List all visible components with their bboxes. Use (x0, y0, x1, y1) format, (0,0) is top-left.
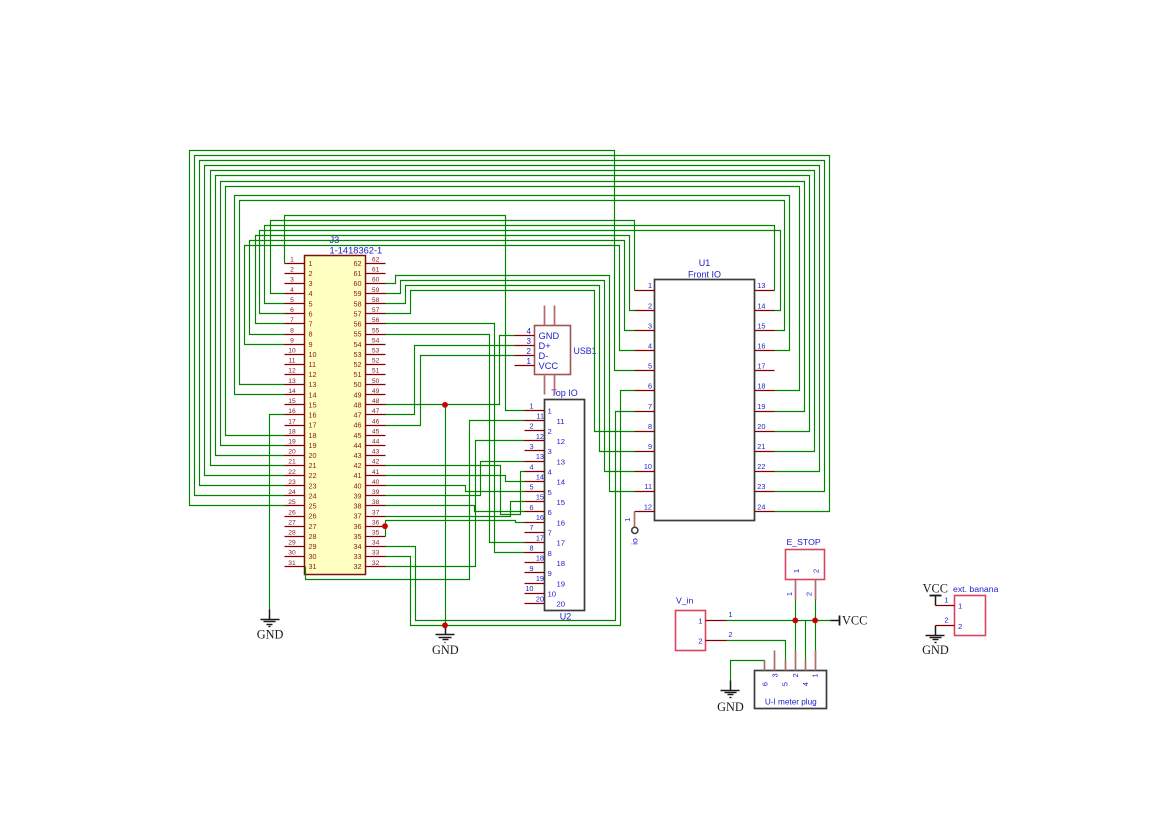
svg-text:12: 12 (557, 437, 566, 446)
svg-text:59: 59 (353, 289, 361, 298)
svg-text:42: 42 (353, 461, 361, 470)
svg-text:19: 19 (557, 579, 566, 588)
svg-text:18: 18 (557, 559, 566, 568)
svg-text:17: 17 (757, 362, 765, 371)
svg-text:5: 5 (648, 362, 652, 371)
connector U-I meter plug (755, 651, 827, 709)
svg-text:13: 13 (309, 380, 317, 389)
svg-text:2: 2 (944, 615, 948, 624)
svg-text:44: 44 (353, 441, 361, 450)
wire J3 pin6 to U1 pin14 (260, 231, 781, 314)
junction GND net bottom (442, 622, 448, 628)
IC U1 Front IO (635, 258, 775, 521)
svg-text:46: 46 (372, 418, 380, 425)
svg-text:11: 11 (644, 482, 652, 491)
svg-text:37: 37 (372, 509, 380, 516)
svg-text:53: 53 (372, 347, 380, 354)
svg-text:8: 8 (290, 327, 294, 334)
svg-text:16: 16 (557, 518, 566, 527)
wire E_STOP pin1 to plug pin2 (795, 600, 797, 651)
svg-text:14: 14 (557, 478, 566, 487)
svg-text:2: 2 (648, 301, 652, 310)
svg-text:41: 41 (353, 471, 361, 480)
svg-text:1: 1 (309, 259, 313, 268)
svg-text:1: 1 (648, 281, 652, 290)
svg-text:58: 58 (372, 297, 380, 304)
svg-text:35: 35 (372, 529, 380, 536)
svg-text:1: 1 (529, 401, 533, 410)
svg-text:7: 7 (290, 317, 294, 324)
svg-text:1: 1 (944, 595, 948, 604)
svg-text:27: 27 (309, 522, 317, 531)
svg-text:1: 1 (728, 610, 732, 619)
svg-text:11: 11 (309, 360, 317, 369)
svg-text:26: 26 (309, 512, 317, 521)
svg-text:16: 16 (288, 408, 296, 415)
IC U2 Top IO (525, 388, 585, 622)
svg-text:30: 30 (288, 550, 296, 557)
wire J3 pin41 to U2 pin14 (386, 476, 525, 482)
svg-text:39: 39 (353, 491, 361, 500)
svg-text:26: 26 (288, 509, 296, 516)
svg-text:61: 61 (353, 269, 361, 278)
junction J3 pin48 net / GND (442, 402, 448, 408)
svg-text:32: 32 (372, 560, 380, 567)
svg-text:15: 15 (536, 493, 544, 502)
svg-text:19: 19 (757, 402, 765, 411)
svg-text:1: 1 (698, 617, 702, 626)
svg-text:2: 2 (548, 427, 552, 436)
svg-text:5: 5 (309, 299, 313, 308)
svg-text:10: 10 (288, 347, 296, 354)
svg-text:29: 29 (288, 540, 296, 547)
svg-text:GND: GND (717, 700, 744, 714)
wire J3 pin57 to U1 pin8 (386, 291, 635, 432)
wire J3 pin31 to U2 pin11 (306, 421, 525, 580)
svg-text:11: 11 (289, 358, 296, 365)
svg-text:50: 50 (353, 380, 361, 389)
svg-text:17: 17 (288, 418, 296, 425)
svg-text:4: 4 (548, 468, 553, 477)
svg-text:15: 15 (309, 400, 317, 409)
wire J3 pin23 to U1 pin23 (200, 161, 825, 492)
svg-text:52: 52 (353, 360, 361, 369)
svg-text:6: 6 (309, 309, 313, 318)
svg-text:11: 11 (557, 417, 565, 426)
svg-text:4: 4 (648, 342, 652, 351)
svg-text:4: 4 (801, 682, 810, 686)
svg-text:4: 4 (290, 287, 294, 294)
svg-text:8: 8 (648, 422, 652, 431)
svg-text:VCC: VCC (539, 361, 559, 371)
wire J3 pin21 to U1 pin21 (211, 171, 815, 466)
svg-text:31: 31 (309, 562, 317, 571)
wire J3 pin13 to U1 pin15 (240, 201, 785, 385)
svg-text:VCC: VCC (923, 582, 948, 596)
svg-text:14: 14 (757, 301, 765, 310)
svg-text:38: 38 (353, 502, 361, 511)
svg-text:38: 38 (372, 499, 380, 506)
wire J3 pin14 to U1 pin16 (235, 196, 790, 395)
svg-text:D-: D- (539, 351, 549, 361)
svg-text:48: 48 (372, 398, 380, 405)
wire J3 pin42 to U2 pin4 (386, 466, 525, 515)
svg-text:16: 16 (309, 411, 317, 420)
svg-text:43: 43 (372, 449, 380, 456)
svg-text:4: 4 (529, 462, 533, 471)
junction VCC / E_STOP pin2 (812, 618, 818, 624)
connector ext. banana (936, 584, 999, 636)
svg-text:15: 15 (557, 498, 566, 507)
svg-text:15: 15 (757, 321, 765, 330)
connector io (pin 1 on U1 pin 12) (623, 512, 640, 545)
svg-text:54: 54 (372, 337, 380, 344)
wire J3 pin33 to U1 pin6 (GND net) (386, 391, 635, 626)
svg-text:34: 34 (353, 542, 361, 551)
svg-text:3: 3 (529, 442, 533, 451)
svg-text:12: 12 (536, 432, 544, 441)
svg-text:40: 40 (372, 479, 380, 486)
svg-text:58: 58 (353, 299, 361, 308)
svg-text:33: 33 (353, 552, 361, 561)
wire J3 pin35-36 to U2 pin16 (386, 521, 525, 537)
svg-text:23: 23 (288, 479, 296, 486)
svg-text:20: 20 (757, 422, 765, 431)
svg-text:8: 8 (529, 544, 533, 553)
svg-text:24: 24 (757, 502, 765, 511)
svg-text:15: 15 (288, 398, 296, 405)
svg-text:2: 2 (805, 592, 814, 596)
wire J3 pin48 to USB1 GND (386, 336, 515, 405)
svg-text:17: 17 (309, 421, 317, 430)
svg-text:9: 9 (648, 442, 652, 451)
svg-text:32: 32 (353, 562, 361, 571)
svg-text:2: 2 (309, 269, 313, 278)
svg-text:12: 12 (288, 368, 296, 375)
svg-text:52: 52 (372, 358, 380, 365)
wire V_in pin1 to VCC (727, 620, 831, 622)
svg-text:28: 28 (288, 529, 296, 536)
svg-text:47: 47 (353, 411, 361, 420)
wire J3 pin32 to U2 pin12 (386, 441, 525, 567)
svg-text:23: 23 (309, 481, 317, 490)
svg-text:13: 13 (536, 452, 544, 461)
svg-text:49: 49 (372, 388, 380, 395)
svg-text:7: 7 (529, 523, 533, 532)
svg-text:13: 13 (288, 378, 296, 385)
svg-text:1: 1 (792, 569, 801, 573)
svg-text:20: 20 (557, 600, 566, 609)
svg-text:27: 27 (288, 519, 296, 526)
svg-text:56: 56 (353, 320, 361, 329)
svg-text:53: 53 (353, 350, 361, 359)
svg-text:28: 28 (309, 532, 317, 541)
wire J3 pin56 to U2 pin8 (386, 324, 525, 553)
power symbol GND (middle junction) (432, 626, 459, 657)
svg-text:57: 57 (353, 309, 361, 318)
svg-text:60: 60 (372, 277, 380, 284)
svg-text:3: 3 (309, 279, 313, 288)
svg-text:20: 20 (288, 449, 296, 456)
svg-text:1: 1 (785, 592, 794, 596)
svg-text:24: 24 (288, 489, 296, 496)
wire J3 pin16 to GND (270, 415, 285, 610)
wire J3 pin1 to U2 pin1 (285, 216, 525, 411)
wire J3 pin8 to U1 pin3 (250, 241, 635, 335)
svg-text:17: 17 (536, 533, 544, 542)
svg-text:Front IO: Front IO (688, 269, 721, 279)
svg-text:21: 21 (309, 461, 317, 470)
svg-text:5: 5 (290, 297, 294, 304)
svg-text:2: 2 (529, 422, 533, 431)
svg-text:12: 12 (309, 370, 317, 379)
connector USB1 (515, 306, 597, 395)
wire J3 pin22 to U1 pin22 (205, 166, 820, 476)
svg-text:7: 7 (648, 402, 652, 411)
wire J3 pin19 to U1 pin19 (221, 182, 805, 446)
svg-text:5: 5 (529, 483, 533, 492)
svg-text:2: 2 (958, 622, 962, 631)
svg-text:8: 8 (548, 549, 552, 558)
svg-text:16: 16 (536, 513, 544, 522)
svg-text:7: 7 (548, 529, 552, 538)
svg-text:22: 22 (288, 469, 296, 476)
svg-text:6: 6 (761, 682, 770, 686)
svg-text:51: 51 (372, 368, 380, 375)
svg-text:18: 18 (288, 428, 296, 435)
svg-text:34: 34 (372, 540, 380, 547)
svg-text:7: 7 (309, 320, 313, 329)
svg-text:VCC: VCC (842, 614, 867, 628)
svg-text:9: 9 (309, 340, 313, 349)
svg-text:37: 37 (353, 512, 361, 521)
wire GND junction riser (445, 405, 447, 626)
svg-text:60: 60 (353, 279, 361, 288)
wire J3 pin7 to U1 pin2 (256, 236, 635, 324)
svg-text:40: 40 (353, 481, 361, 490)
svg-text:21: 21 (757, 442, 765, 451)
svg-text:5: 5 (781, 682, 790, 686)
svg-text:20: 20 (309, 451, 317, 460)
svg-text:55: 55 (353, 330, 361, 339)
svg-text:45: 45 (372, 428, 380, 435)
wire VCC branch to plug pin4 (805, 621, 807, 660)
svg-text:43: 43 (353, 451, 361, 460)
svg-text:54: 54 (353, 340, 361, 349)
wire J3 pin58 to U1 pin9 (386, 286, 635, 452)
svg-text:14: 14 (288, 388, 296, 395)
svg-text:45: 45 (353, 431, 361, 440)
wire J3 pin55 to U2 pin17 (386, 335, 525, 543)
svg-text:46: 46 (353, 421, 361, 430)
svg-text:25: 25 (309, 502, 317, 511)
svg-text:17: 17 (557, 539, 566, 548)
svg-text:USB1: USB1 (574, 346, 597, 356)
svg-text:62: 62 (353, 259, 361, 268)
svg-text:25: 25 (288, 499, 296, 506)
svg-text:36: 36 (372, 519, 380, 526)
wire V_in pin2 to plug pin5 (727, 641, 786, 660)
svg-text:21: 21 (288, 459, 296, 466)
svg-text:GND: GND (922, 643, 949, 657)
svg-text:33: 33 (372, 550, 380, 557)
wire J3 pin24 to U1 pin24 (195, 156, 830, 512)
svg-text:19: 19 (536, 574, 544, 583)
svg-text:1: 1 (527, 357, 532, 366)
svg-text:9: 9 (290, 337, 294, 344)
svg-text:57: 57 (372, 307, 380, 314)
svg-text:9: 9 (548, 569, 552, 578)
power symbol VCC (ext. banana) (923, 582, 948, 606)
svg-text:E_STOP: E_STOP (787, 537, 821, 547)
svg-text:V_in: V_in (676, 596, 694, 606)
svg-text:19: 19 (288, 438, 296, 445)
svg-text:16: 16 (757, 342, 765, 351)
power symbol GND (left, J3 pin 16) (257, 610, 284, 642)
svg-text:GND: GND (257, 627, 284, 641)
svg-text:30: 30 (309, 552, 317, 561)
svg-text:3: 3 (527, 337, 532, 346)
svg-text:GND: GND (539, 331, 560, 341)
svg-text:49: 49 (353, 390, 361, 399)
svg-text:1: 1 (548, 407, 552, 416)
svg-text:10: 10 (548, 589, 557, 598)
svg-text:2: 2 (527, 347, 532, 356)
svg-text:5: 5 (548, 488, 552, 497)
svg-text:22: 22 (757, 462, 765, 471)
svg-text:47: 47 (372, 408, 380, 415)
svg-text:10: 10 (525, 584, 533, 593)
svg-text:12: 12 (644, 502, 652, 511)
svg-text:50: 50 (372, 378, 380, 385)
wire J3 pin9 to U1 pin4 (245, 246, 635, 351)
wire J3 pin25 to U1 pin5 (190, 151, 635, 506)
wire J3 pin37 to U2 pin15 (386, 502, 525, 517)
svg-text:19: 19 (309, 441, 317, 450)
wire plug pin6 to GND (731, 661, 765, 681)
svg-text:42: 42 (372, 459, 380, 466)
wire J3 pin4 to U1 pin1 (271, 221, 635, 294)
svg-text:29: 29 (309, 542, 317, 551)
svg-text:20: 20 (536, 594, 544, 603)
wire J3 pin47 to USB1 D+ (386, 346, 515, 415)
svg-text:14: 14 (536, 472, 544, 481)
svg-text:U-I meter plug: U-I meter plug (765, 697, 817, 706)
connector V_in (676, 596, 733, 651)
svg-text:61: 61 (372, 267, 380, 274)
svg-text:35: 35 (353, 532, 361, 541)
svg-text:6: 6 (548, 508, 552, 517)
svg-text:3: 3 (290, 277, 294, 284)
svg-text:23: 23 (757, 482, 765, 491)
svg-text:3: 3 (548, 447, 552, 456)
wire J3 pin34 to U1 pin7 (386, 412, 635, 621)
svg-text:18: 18 (757, 382, 765, 391)
svg-text:2: 2 (812, 569, 821, 573)
svg-text:2: 2 (290, 267, 294, 274)
junction VCC / E_STOP pin1 (792, 618, 798, 624)
svg-text:D+: D+ (539, 341, 551, 351)
svg-text:14: 14 (309, 390, 317, 399)
svg-text:6: 6 (648, 382, 652, 391)
junction J3 pin35/36 (382, 523, 388, 529)
svg-text:10: 10 (309, 350, 317, 359)
svg-text:8: 8 (309, 330, 313, 339)
power symbol VCC (mid, bar style) (831, 614, 868, 628)
svg-text:9: 9 (529, 564, 533, 573)
svg-text:2: 2 (698, 637, 702, 646)
svg-text:1: 1 (958, 602, 962, 611)
svg-text:31: 31 (288, 560, 296, 567)
svg-text:io: io (630, 538, 640, 545)
svg-text:2: 2 (791, 673, 800, 677)
svg-text:13: 13 (757, 281, 765, 290)
svg-text:56: 56 (372, 317, 380, 324)
svg-text:22: 22 (309, 471, 317, 480)
svg-text:39: 39 (372, 489, 380, 496)
svg-text:41: 41 (372, 469, 380, 476)
svg-text:59: 59 (372, 287, 380, 294)
wire J3 pin39 to U2 pin13 (386, 462, 525, 496)
svg-text:U1: U1 (699, 258, 711, 268)
svg-text:4: 4 (527, 327, 532, 336)
connector J3 1-1418362-1 (285, 235, 386, 575)
svg-text:4: 4 (309, 289, 313, 298)
svg-text:13: 13 (557, 457, 566, 466)
power symbol GND (U-I meter plug) (717, 681, 744, 714)
svg-text:36: 36 (353, 522, 361, 531)
svg-text:6: 6 (529, 503, 533, 512)
wire J3 pin59 to U1 pin10 (386, 281, 635, 472)
svg-text:1: 1 (290, 257, 294, 264)
svg-text:1: 1 (811, 673, 820, 677)
wire J3 pin40 to U2 pin5 (386, 486, 525, 492)
power symbol GND (ext. banana) (922, 626, 949, 658)
wire J3 pin46 to USB1 D- (386, 356, 515, 426)
svg-text:24: 24 (309, 491, 317, 500)
svg-text:44: 44 (372, 438, 380, 445)
svg-text:62: 62 (372, 257, 380, 264)
svg-text:10: 10 (644, 462, 652, 471)
svg-text:1: 1 (623, 517, 632, 521)
svg-text:48: 48 (353, 400, 361, 409)
wire E_STOP pin2 to plug pin1 (815, 600, 817, 651)
svg-text:GND: GND (432, 643, 459, 657)
wire J3 pin60 to U1 pin11 (386, 276, 635, 492)
switch E_STOP (785, 537, 825, 600)
wire J3 pin18 to U1 pin18 (226, 187, 800, 436)
svg-text:6: 6 (290, 307, 294, 314)
wire J3 pin5 to U1 pin13 (265, 226, 775, 304)
svg-text:51: 51 (353, 370, 361, 379)
svg-text:11: 11 (536, 411, 544, 420)
svg-text:2: 2 (728, 630, 732, 639)
svg-text:18: 18 (309, 431, 317, 440)
svg-text:3: 3 (771, 673, 780, 677)
svg-text:55: 55 (372, 327, 380, 334)
svg-text:1-1418362-1: 1-1418362-1 (330, 246, 383, 256)
svg-text:3: 3 (648, 321, 652, 330)
wire J3 pin20 to U1 pin20 (216, 176, 810, 456)
wire J3 pin38 to U2 pin6 (386, 506, 525, 512)
svg-text:ext. banana: ext. banana (953, 584, 999, 594)
svg-text:18: 18 (536, 554, 544, 563)
